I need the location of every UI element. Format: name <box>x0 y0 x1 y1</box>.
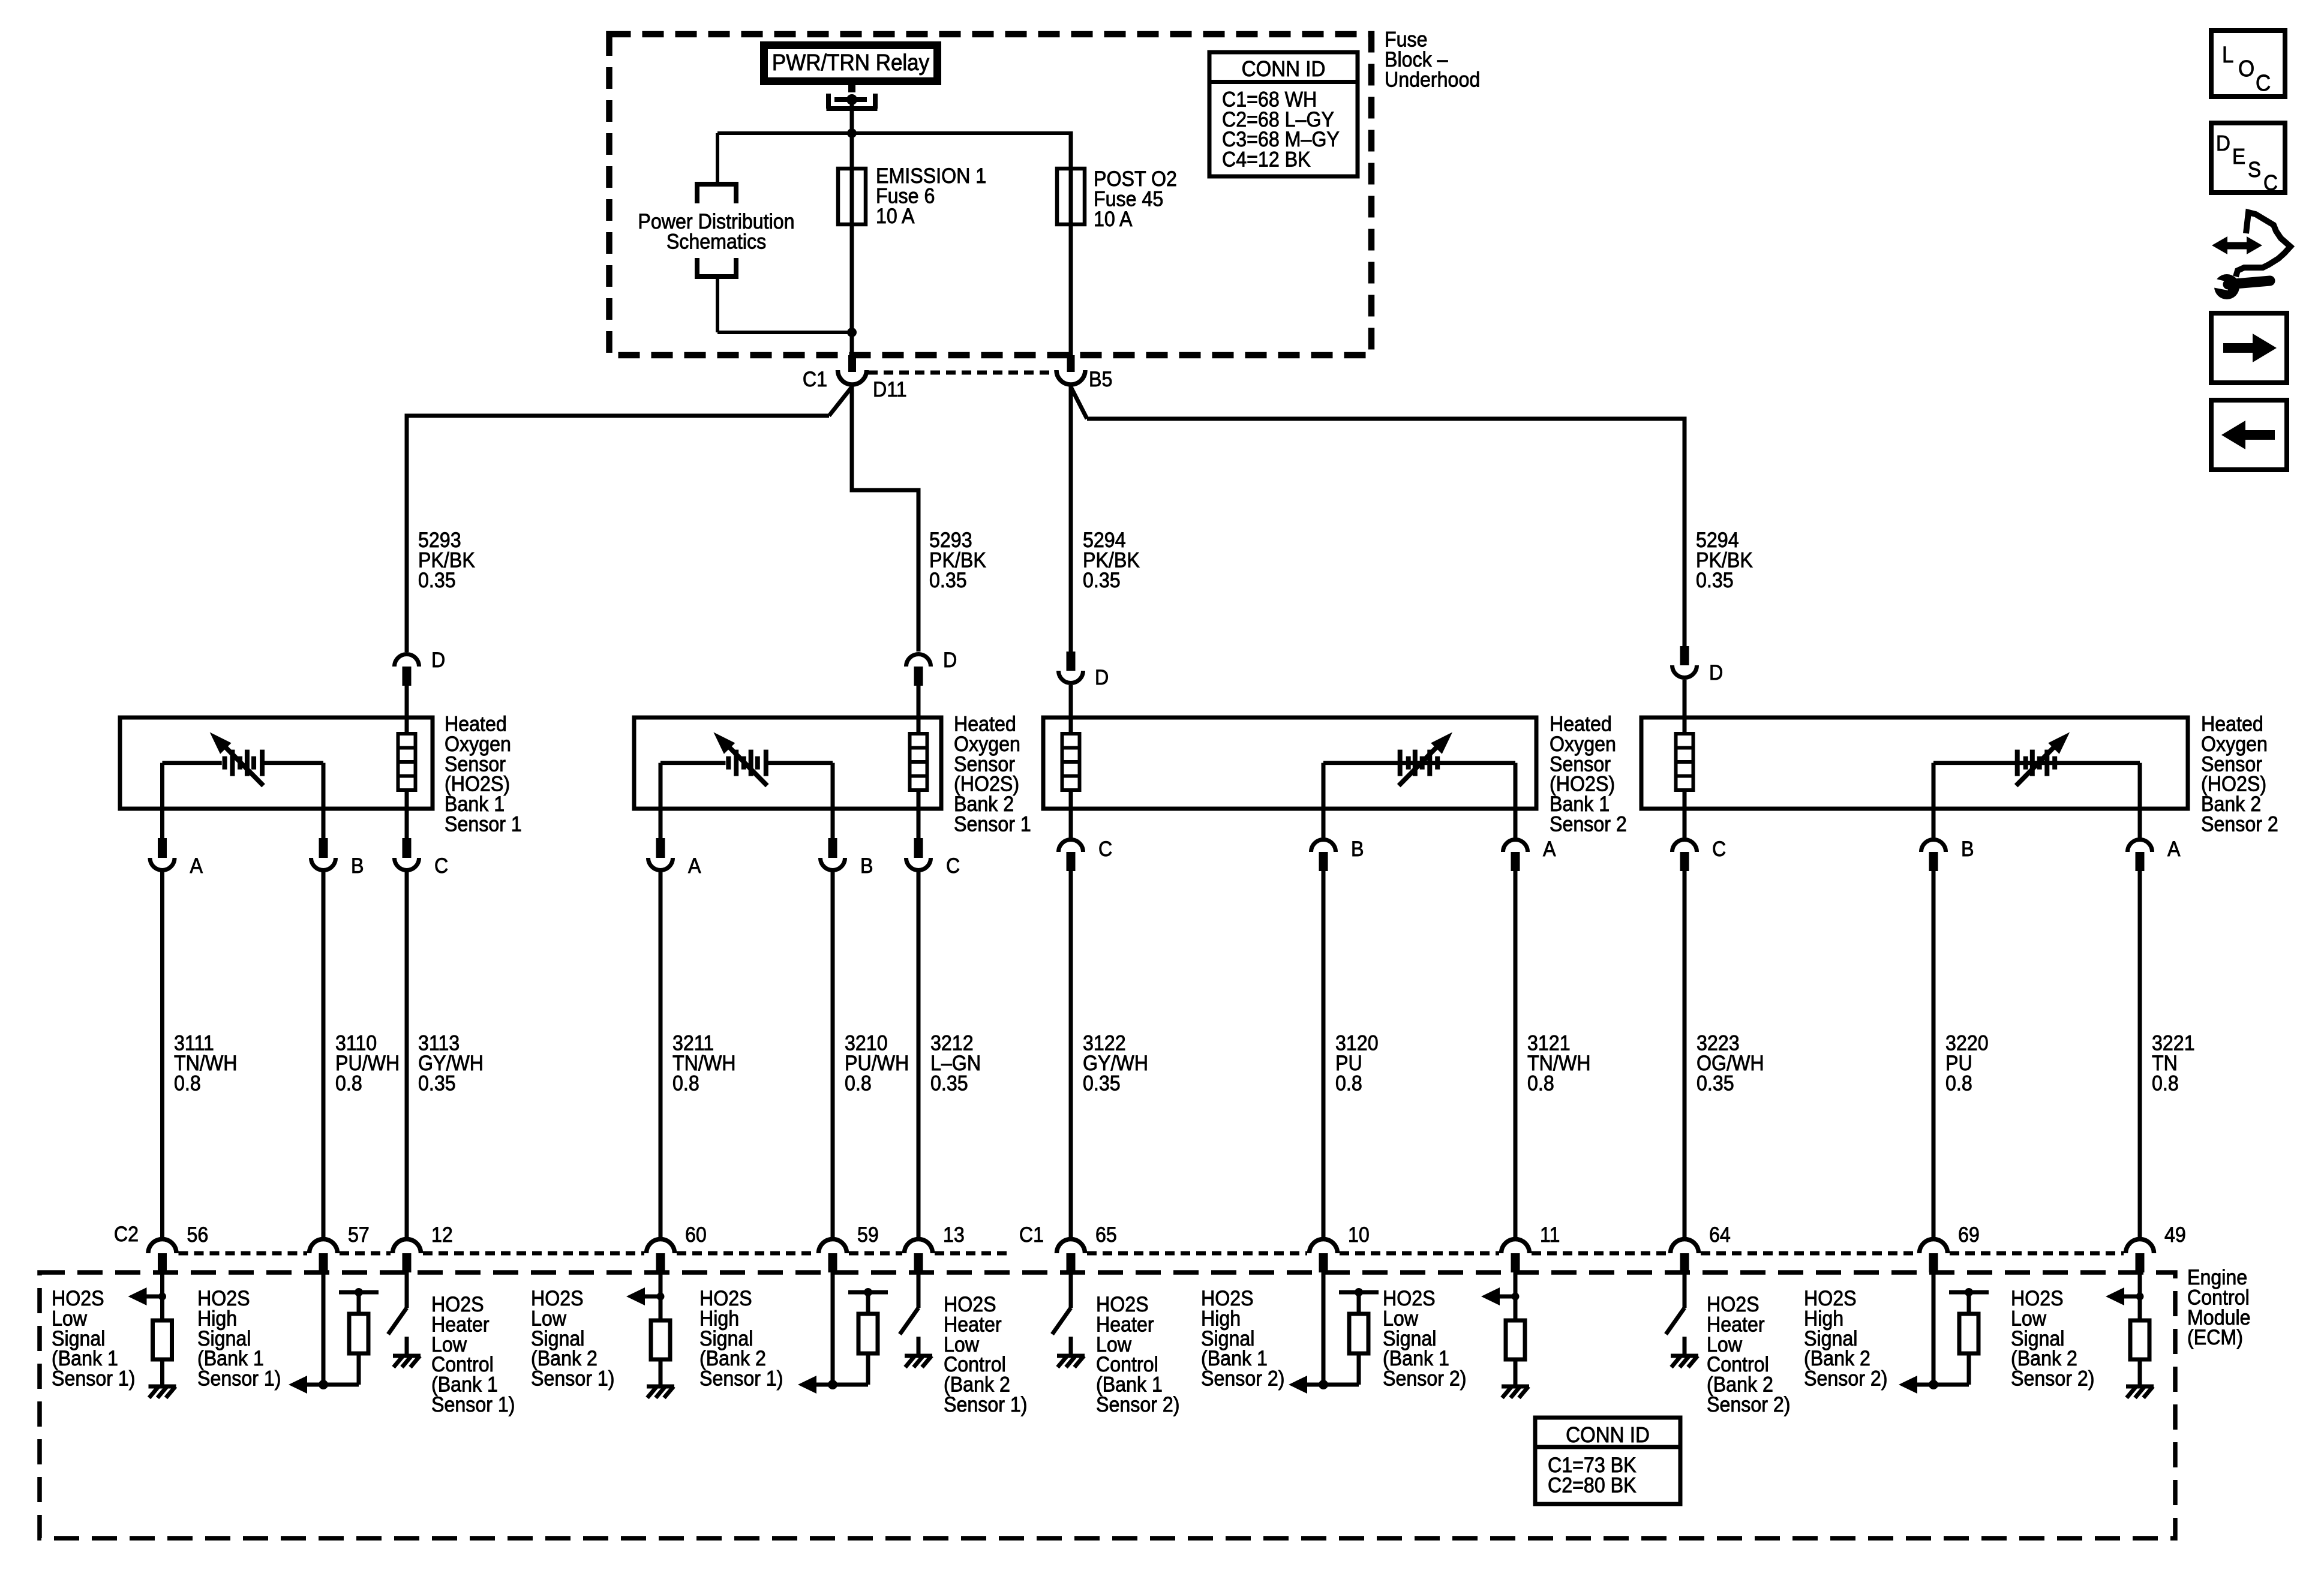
connector D sensor4 stub <box>1680 646 1689 665</box>
connector ECM pin 65 stub <box>1067 1253 1076 1272</box>
fuse block - underhood dashed box <box>609 34 1372 355</box>
svg-text:D: D <box>1095 667 1109 690</box>
conn id table ECM <box>1535 1418 1680 1504</box>
wire ECM pin 11 internal <box>1514 1272 1518 1386</box>
wire ECM pin 57 internal <box>322 1272 326 1385</box>
wire C1 branch diagonal <box>829 387 852 416</box>
relay pin stub <box>848 84 855 92</box>
connector ECM pin 12 cup <box>393 1239 421 1254</box>
wire ECM pin 65 to ground <box>1069 1337 1073 1356</box>
rail bar ECM pin 59 <box>848 1290 888 1295</box>
svg-text:10 A: 10 A <box>1094 208 1133 232</box>
wire ECM pin 10 resistor branch <box>1323 1383 1359 1387</box>
fuse F45 POST O2 body <box>1057 169 1085 224</box>
switch ECM pin 64 <box>1666 1308 1685 1334</box>
svg-text:C2: C2 <box>114 1223 139 1247</box>
connector B5 pin stub <box>1067 355 1075 372</box>
wire D sensor2 into box <box>917 686 921 718</box>
wire ECM pin 57 resistor branch <box>323 1383 359 1387</box>
connector pin B sensor3 and wire to ECM <box>1322 809 1326 840</box>
wire B5 down to sensor3 <box>1069 385 1073 652</box>
ECM dashed box <box>40 1272 2175 1538</box>
resistor ECM pin 56 <box>153 1320 172 1359</box>
svg-text:60: 60 <box>685 1224 707 1247</box>
svg-text:E: E <box>2232 145 2245 169</box>
variable arrow sensor4 <box>2016 743 2059 786</box>
node rail ECM pin 59 <box>864 1288 872 1296</box>
wire sensor2 element right leg <box>831 763 835 809</box>
wire D sensor4 into box <box>1683 680 1687 719</box>
heater element sensor4 <box>1676 734 1694 790</box>
HO2S sensor 1 box <box>120 718 433 809</box>
arrow ECM pin 49 <box>2124 1295 2140 1299</box>
node ECM pin 57 <box>319 1380 328 1389</box>
power distribution schematics box bottom bracket <box>697 258 736 277</box>
wire ECM pin 60 internal <box>659 1272 663 1386</box>
icon arrow left <box>2245 430 2275 440</box>
connector pin C sensor1 and wire to ECM <box>405 809 409 838</box>
svg-text:Sensor 2): Sensor 2) <box>1383 1367 1467 1391</box>
wire ECM pin 10 internal <box>1322 1272 1326 1385</box>
svg-text:Sensor 2): Sensor 2) <box>2011 1367 2095 1391</box>
connector D sensor1 stub <box>403 667 412 686</box>
connector ECM pin 60 stub <box>656 1253 665 1272</box>
arrow ECM pin 10 <box>1307 1383 1323 1387</box>
svg-text:59: 59 <box>857 1224 879 1247</box>
connector ECM pin 49 stub <box>2136 1253 2145 1272</box>
connector pin B sensor1 and wire to ECM <box>322 809 326 838</box>
svg-text:Sensor 1): Sensor 1) <box>431 1394 515 1417</box>
svg-text:C: C <box>2256 70 2271 96</box>
switch ECM pin 12 <box>388 1308 407 1334</box>
variable arrow sensor2 <box>725 743 767 786</box>
heater element sensor1 <box>398 734 416 790</box>
wire ECM pin 65 internal <box>1069 1272 1073 1308</box>
connector D sensor2 stub <box>914 667 923 686</box>
svg-text:0.8: 0.8 <box>1527 1072 1554 1095</box>
arrow ECM pin 56 <box>147 1295 163 1299</box>
wire drop to power distribution <box>716 133 719 184</box>
conn id table fuse block <box>1209 52 1358 176</box>
wire sensor4 element left leg <box>2138 763 2142 809</box>
svg-text:D: D <box>2216 132 2230 156</box>
svg-text:L: L <box>2222 42 2233 68</box>
svg-text:D11: D11 <box>873 379 907 402</box>
svg-text:0.8: 0.8 <box>174 1072 201 1095</box>
wire power distribution to fuse node <box>716 277 719 332</box>
wire ECM pin 12 to ground <box>405 1337 409 1356</box>
resistor ECM pin 60 <box>651 1320 670 1359</box>
variable arrow sensor3 <box>1399 743 1442 786</box>
wire heater sensor3 <box>1069 718 1073 809</box>
svg-text:Sensor 1): Sensor 1) <box>197 1367 281 1391</box>
connector line dotted C1-B5 <box>868 371 1055 375</box>
rail bar ECM pin 10 <box>1339 1290 1379 1295</box>
icon arrow left box <box>2211 400 2287 470</box>
svg-text:49: 49 <box>2164 1224 2186 1247</box>
arrow ECM pin 69 <box>1917 1383 1933 1387</box>
svg-text:13: 13 <box>943 1224 965 1247</box>
svg-text:C1: C1 <box>1019 1224 1044 1247</box>
ground ECM pin 49 <box>2126 1385 2154 1389</box>
arrow ECM pin 57 <box>307 1383 323 1387</box>
wire sensor4 element right leg <box>1932 763 1936 809</box>
icon service wrench <box>2212 236 2227 254</box>
node rail ECM pin 10 <box>1355 1288 1363 1296</box>
rail bar ECM pin 69 <box>1949 1290 1989 1295</box>
wire sensor1 element right leg <box>322 763 326 809</box>
svg-text:0.8: 0.8 <box>2152 1072 2179 1095</box>
ground ECM pin 64 <box>1671 1354 1698 1358</box>
connector ECM pin 64 cup <box>1671 1239 1699 1254</box>
wire ECM pin 56 internal <box>160 1272 164 1386</box>
svg-text:11: 11 <box>1540 1224 1560 1247</box>
wire branch to sensor1 <box>407 416 829 652</box>
wire heater sensor2 <box>917 718 921 809</box>
ground ECM pin 12 <box>393 1354 421 1358</box>
svg-text:CONN ID: CONN ID <box>1242 58 1326 82</box>
svg-text:B5: B5 <box>1089 368 1112 392</box>
wire ECM pin 69 resistor branch <box>1933 1383 1969 1387</box>
wire sensor3 element left leg <box>1514 763 1518 809</box>
svg-text:0.35: 0.35 <box>1696 569 1734 593</box>
wire post o2 fuse vertical <box>1069 131 1073 355</box>
connector D sensor2 cup <box>906 655 930 667</box>
svg-text:Schematics: Schematics <box>666 230 766 254</box>
node ECM pin 69 <box>1929 1380 1938 1389</box>
svg-text:0.8: 0.8 <box>335 1072 362 1095</box>
icon LOC box <box>2211 31 2285 97</box>
wire sensor3 element right leg <box>1322 763 1326 809</box>
svg-text:PWR/TRN Relay: PWR/TRN Relay <box>772 50 930 76</box>
connector ECM pin 56 cup <box>148 1239 176 1254</box>
connector pin A sensor4 and wire to ECM <box>2138 809 2142 840</box>
svg-text:Sensor 1): Sensor 1) <box>699 1367 783 1391</box>
resistor ECM pin 57 branch <box>349 1314 368 1353</box>
svg-text:Sensor 2): Sensor 2) <box>1096 1394 1180 1417</box>
node ECM pin 49 <box>2136 1293 2144 1301</box>
connector C1 pin stub <box>848 355 856 372</box>
wire ECM pin 69 internal <box>1932 1272 1936 1385</box>
svg-text:D: D <box>1709 662 1723 685</box>
connector ECM pin 65 cup <box>1057 1239 1085 1254</box>
connector ECM pin 64 stub <box>1680 1253 1689 1272</box>
wire D sensor1 into box <box>405 686 409 718</box>
svg-text:Sensor 2): Sensor 2) <box>1804 1367 1888 1391</box>
resistor ECM pin 59 branch <box>858 1314 878 1353</box>
connector pin A sensor1 and wire to ECM <box>160 809 164 838</box>
svg-text:C: C <box>1712 838 1726 861</box>
svg-text:Sensor 2): Sensor 2) <box>1707 1394 1791 1417</box>
svg-text:O: O <box>2238 56 2254 82</box>
svg-text:0.35: 0.35 <box>418 569 456 593</box>
svg-text:10: 10 <box>1348 1224 1370 1247</box>
connector ECM pin 56 stub <box>158 1253 167 1272</box>
connector pin C sensor2 and wire to ECM <box>917 809 921 838</box>
ECM connector line dotted <box>179 1251 308 1256</box>
svg-text:0.35: 0.35 <box>1697 1072 1734 1095</box>
node rail ECM pin 57 <box>355 1288 363 1296</box>
wire emission1 fuse vertical <box>850 133 854 355</box>
variable source sensing element sensor1 <box>223 757 227 770</box>
ground ECM pin 11 <box>1502 1385 1529 1389</box>
arrow ECM pin 11 <box>1500 1295 1515 1299</box>
svg-text:S: S <box>2248 158 2261 182</box>
relay contact bar <box>834 97 867 102</box>
switch ECM pin 13 <box>900 1308 918 1334</box>
svg-text:12: 12 <box>431 1224 453 1247</box>
wire ECM pin 49 internal <box>2138 1272 2142 1386</box>
svg-text:D: D <box>943 649 957 673</box>
connector D sensor4 cup <box>1673 665 1697 677</box>
svg-text:10 A: 10 A <box>876 205 915 229</box>
svg-text:57: 57 <box>348 1224 370 1247</box>
svg-text:C: C <box>946 855 960 878</box>
wire relay output <box>850 100 854 133</box>
rail bar ECM pin 57 <box>339 1290 379 1295</box>
wire D sensor3 into box <box>1069 685 1073 718</box>
wire bus horizontal <box>717 131 1073 135</box>
connector ECM pin 69 cup <box>1920 1239 1948 1254</box>
svg-text:0.8: 0.8 <box>1945 1072 1972 1095</box>
variable source sensing element sensor2 <box>726 757 731 770</box>
connector ECM pin 12 stub <box>403 1253 412 1272</box>
connector pin A sensor3 and wire to ECM <box>1514 809 1518 840</box>
svg-text:0.35: 0.35 <box>1083 569 1121 593</box>
connector ECM pin 10 stub <box>1319 1253 1328 1272</box>
svg-text:Sensor 2: Sensor 2 <box>1550 813 1627 836</box>
svg-text:Sensor 1: Sensor 1 <box>445 813 522 836</box>
node ECM pin 60 <box>657 1293 665 1301</box>
HO2S sensor 2 box <box>634 718 941 809</box>
icon arrow right <box>2223 343 2253 353</box>
relay contact bracket <box>827 94 878 109</box>
svg-text:0.35: 0.35 <box>929 569 967 593</box>
svg-text:CONN ID: CONN ID <box>1566 1424 1650 1448</box>
connector ECM pin 11 cup <box>1502 1239 1530 1254</box>
svg-text:B: B <box>860 855 873 878</box>
connector ECM pin 57 cup <box>310 1239 338 1254</box>
node bus junction <box>847 128 857 138</box>
node ECM pin 59 <box>828 1380 837 1389</box>
connector C1 cup <box>838 370 867 385</box>
connector ECM pin 60 cup <box>647 1239 675 1254</box>
wire heater sensor1 <box>405 718 409 809</box>
wire ECM pin 64 to ground <box>1683 1337 1687 1356</box>
wire ECM pin 13 to ground <box>917 1337 921 1356</box>
wire sensor1 element left leg <box>160 763 164 809</box>
connector ECM pin 57 stub <box>319 1253 328 1272</box>
wire branch to sensor4 <box>1087 419 1685 646</box>
connector ECM pin 10 cup <box>1310 1239 1338 1254</box>
svg-text:B: B <box>1961 838 1974 861</box>
connector ECM pin 13 cup <box>904 1239 932 1254</box>
node fuse feed junction <box>847 328 857 337</box>
wire heater sensor4 <box>1683 718 1687 809</box>
svg-text:Sensor 1): Sensor 1) <box>944 1394 1028 1417</box>
svg-text:C: C <box>2263 172 2278 196</box>
svg-text:C: C <box>1098 838 1112 861</box>
svg-text:A: A <box>1543 838 1556 861</box>
svg-text:(ECM): (ECM) <box>2187 1326 2243 1350</box>
wire C1 down with jog to sensor2 <box>852 385 918 652</box>
ground ECM pin 65 <box>1057 1354 1085 1358</box>
svg-text:C4=12 BK: C4=12 BK <box>1222 148 1311 172</box>
svg-text:Sensor 1): Sensor 1) <box>531 1367 615 1391</box>
connector B5 cup <box>1056 370 1085 385</box>
svg-text:A: A <box>2167 838 2181 861</box>
wire ECM pin 12 internal <box>405 1272 409 1308</box>
svg-text:B: B <box>1351 838 1364 861</box>
wire ECM pin 13 internal <box>917 1272 921 1308</box>
icon arrow right box <box>2211 313 2287 383</box>
switch ECM pin 65 <box>1052 1308 1071 1334</box>
svg-text:0.8: 0.8 <box>1335 1072 1362 1095</box>
connector ECM pin 11 stub <box>1511 1253 1520 1272</box>
svg-text:69: 69 <box>1958 1224 1980 1247</box>
connector pin B sensor2 and wire to ECM <box>831 809 835 838</box>
ground ECM pin 56 <box>149 1385 176 1389</box>
node ECM pin 56 <box>158 1293 166 1301</box>
node ECM pin 11 <box>1512 1293 1520 1301</box>
connector D sensor3 cup <box>1058 671 1083 683</box>
svg-text:0.35: 0.35 <box>1083 1072 1121 1095</box>
svg-text:A: A <box>190 855 203 878</box>
connector ECM pin 59 stub <box>828 1253 837 1272</box>
heater element sensor2 <box>910 734 927 790</box>
wire ECM pin 59 resistor branch <box>833 1383 868 1387</box>
relay K PWR/TRN Relay box <box>760 41 941 85</box>
resistor ECM pin 10 branch <box>1349 1314 1368 1353</box>
wire sensor2 element left leg <box>659 763 663 809</box>
fuse F6 EMISSION 1 body <box>838 169 866 224</box>
svg-text:D: D <box>431 649 445 673</box>
variable source sensing element sensor3 <box>1398 750 1403 776</box>
svg-text:Underhood: Underhood <box>1385 68 1480 92</box>
arrow ECM pin 60 <box>645 1295 660 1299</box>
svg-text:0.8: 0.8 <box>672 1072 699 1095</box>
svg-text:65: 65 <box>1095 1224 1117 1247</box>
ground ECM pin 60 <box>647 1385 674 1389</box>
resistor ECM pin 69 branch <box>1959 1314 1978 1353</box>
node ECM pin 10 <box>1319 1380 1328 1389</box>
svg-text:C1: C1 <box>803 368 827 392</box>
connector pin C sensor3 and wire to ECM <box>1069 809 1073 840</box>
svg-text:Sensor 1): Sensor 1) <box>52 1367 136 1391</box>
variable source sensing element sensor4 <box>2015 750 2020 776</box>
connector ECM pin 49 cup <box>2126 1239 2154 1254</box>
svg-text:A: A <box>688 855 701 878</box>
connector ECM pin 13 stub <box>914 1253 923 1272</box>
connector ECM pin 69 stub <box>1929 1253 1938 1272</box>
node rail ECM pin 69 <box>1965 1288 1973 1296</box>
heater element sensor3 <box>1062 734 1080 790</box>
connector pin B sensor4 and wire to ECM <box>1932 809 1936 840</box>
arrow ECM pin 59 <box>816 1383 833 1387</box>
HO2S sensor 3 box <box>1043 718 1536 809</box>
relay contact dot <box>846 94 857 105</box>
ground ECM pin 13 <box>905 1354 932 1358</box>
svg-text:C: C <box>434 855 448 878</box>
resistor ECM pin 11 <box>1506 1320 1525 1359</box>
connector pin C sensor4 and wire to ECM <box>1683 809 1687 840</box>
connector D sensor3 stub <box>1067 652 1076 671</box>
svg-text:0.8: 0.8 <box>845 1072 872 1095</box>
svg-text:0.35: 0.35 <box>418 1072 456 1095</box>
connector D sensor1 cup <box>395 655 419 667</box>
resistor ECM pin 49 <box>2130 1320 2149 1359</box>
svg-text:0.35: 0.35 <box>930 1072 968 1095</box>
wire ECM pin 59 internal <box>831 1272 835 1385</box>
svg-text:56: 56 <box>187 1224 209 1247</box>
icon DESC box <box>2211 123 2285 193</box>
HO2S sensor 4 box <box>1641 718 2188 809</box>
wire B5 branch diagonal <box>1071 387 1087 419</box>
svg-text:C2=80 BK: C2=80 BK <box>1548 1474 1637 1497</box>
svg-text:Sensor 1: Sensor 1 <box>954 813 1031 836</box>
svg-text:Sensor 2: Sensor 2 <box>2201 813 2278 836</box>
connector pin A sensor2 and wire to ECM <box>659 809 663 838</box>
svg-text:B: B <box>351 855 364 878</box>
wire ECM pin 64 internal <box>1683 1272 1687 1308</box>
variable arrow sensor1 <box>221 743 263 786</box>
svg-text:64: 64 <box>1709 1224 1731 1247</box>
power distribution schematics box top bracket <box>697 184 736 203</box>
svg-text:Sensor 2): Sensor 2) <box>1201 1367 1285 1391</box>
connector ECM pin 59 cup <box>819 1239 847 1254</box>
